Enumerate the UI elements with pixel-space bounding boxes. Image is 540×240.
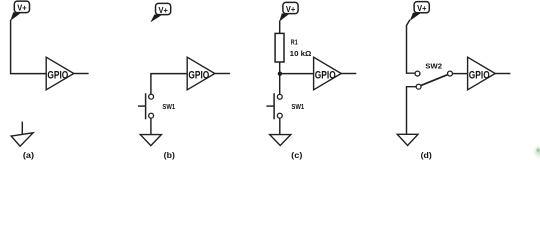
svg-text:(d): (d): [421, 151, 433, 160]
svg-text:SW2: SW2: [425, 61, 442, 70]
svg-text:(a): (a): [23, 151, 35, 160]
svg-text:V+: V+: [17, 4, 27, 13]
svg-text:GPIO: GPIO: [47, 69, 68, 81]
svg-text:SW1: SW1: [291, 102, 304, 111]
svg-text:V+: V+: [159, 6, 169, 15]
svg-text:GPIO: GPIO: [188, 69, 209, 81]
svg-text:V+: V+: [286, 5, 296, 14]
svg-text:10 kΩ: 10 kΩ: [290, 49, 312, 58]
svg-text:(c): (c): [291, 151, 303, 160]
svg-text:R1: R1: [291, 38, 298, 47]
svg-text:GPIO: GPIO: [315, 69, 336, 81]
svg-text:SW1: SW1: [162, 102, 175, 111]
svg-text:(b): (b): [164, 151, 176, 160]
svg-text:GPIO: GPIO: [469, 69, 490, 81]
svg-text:V+: V+: [417, 4, 427, 13]
